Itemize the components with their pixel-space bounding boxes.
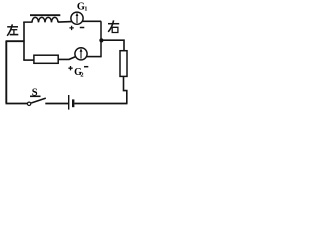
junction node dot (right) [99, 38, 103, 42]
wire: middle branch G2 to right column [87, 56, 102, 58]
wire: middle branch left lead [23, 59, 34, 61]
galvanometer G1 circle [71, 12, 83, 24]
label G1 minus terminal [80, 27, 85, 29]
galvanometer G2 needle arrow [80, 50, 82, 58]
wire: top wire coil to G1 [58, 21, 72, 24]
resistor R2 (vertical, right) [120, 51, 127, 77]
inductor coil bumps [32, 17, 58, 22]
wire: left column (top-left corner down to middle branch) [23, 22, 25, 60]
resistor R1 (horizontal, middle) [34, 55, 58, 63]
wire: branch from junction to vertical resistor [101, 40, 124, 51]
wire: resistor R2 bottom lead with jog to bottom-right corner [124, 76, 127, 103]
label G1 plus terminal [69, 26, 73, 30]
wire: left step (junction to outer left column) [6, 40, 25, 42]
wire: bottom wire switch to battery [45, 103, 68, 105]
switch S contact circle [27, 102, 30, 105]
switch S arm [31, 98, 46, 103]
battery negative plate (short) [72, 99, 74, 107]
battery positive plate (long) [68, 95, 70, 110]
galvanometer G1 needle arrow [76, 15, 78, 23]
wire: bottom wire battery to bottom-right corner [74, 103, 127, 105]
label 右 (right) hand-drawn [108, 20, 119, 32]
wire: top wire G1 to top-right corner [83, 20, 102, 22]
label 左 (left) hand-drawn [7, 24, 18, 35]
svg-text:1: 1 [84, 6, 87, 13]
wire: bottom wire left of switch [6, 103, 28, 105]
galvanometer G2 circle [75, 48, 87, 60]
wire: outer left column down to bottom-left corner [5, 41, 7, 104]
svg-text:2: 2 [80, 71, 83, 78]
label G2 minus terminal [84, 66, 88, 68]
wire: middle branch R1 to G2 [58, 57, 75, 60]
wire: right column (top corner down to middle branch) [100, 21, 102, 57]
label G2 plus terminal [68, 66, 72, 70]
inductor coil (left coil) core bar [30, 14, 60, 16]
label S underline [30, 95, 41, 97]
wire: top wire left segment (top-left corner to coil) [23, 21, 32, 22]
